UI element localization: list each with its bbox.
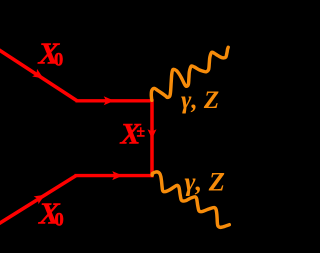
arrow on vertical propagator (down) bbox=[148, 129, 157, 139]
svg-text:0: 0 bbox=[55, 211, 64, 231]
svg-text:γ, Z: γ, Z bbox=[181, 87, 219, 114]
arrow on bottom diagonal bbox=[34, 195, 45, 204]
label X+- (chargino) center bbox=[120, 118, 146, 151]
svg-text:0: 0 bbox=[54, 51, 63, 71]
arrow on top horizontal bbox=[104, 96, 115, 105]
svg-text:±: ± bbox=[137, 124, 146, 141]
label X0 (neutralino) top left bbox=[38, 36, 64, 71]
arrow on bottom horizontal bbox=[112, 171, 123, 180]
photon line gamma/Z bottom right (wavy) bbox=[152, 172, 229, 227]
wire: vertical chargino propagator X+- bbox=[150, 99, 154, 177]
wire: bottom horizontal fermion line bbox=[75, 174, 154, 177]
svg-text:γ, Z: γ, Z bbox=[185, 167, 225, 197]
photon line gamma/Z top right (wavy) bbox=[151, 47, 228, 100]
label gamma, Z bottom right bbox=[185, 167, 225, 197]
wire: incoming chi0 bottom-left diagonal bbox=[0, 176, 76, 225]
wire: incoming chi0 top-left diagonal bbox=[0, 49, 77, 101]
arrow on top diagonal bbox=[32, 69, 43, 78]
label gamma, Z top right bbox=[181, 87, 219, 114]
label X0 (neutralino) bottom left bbox=[38, 196, 64, 231]
wire: top horizontal fermion line bbox=[76, 99, 154, 102]
